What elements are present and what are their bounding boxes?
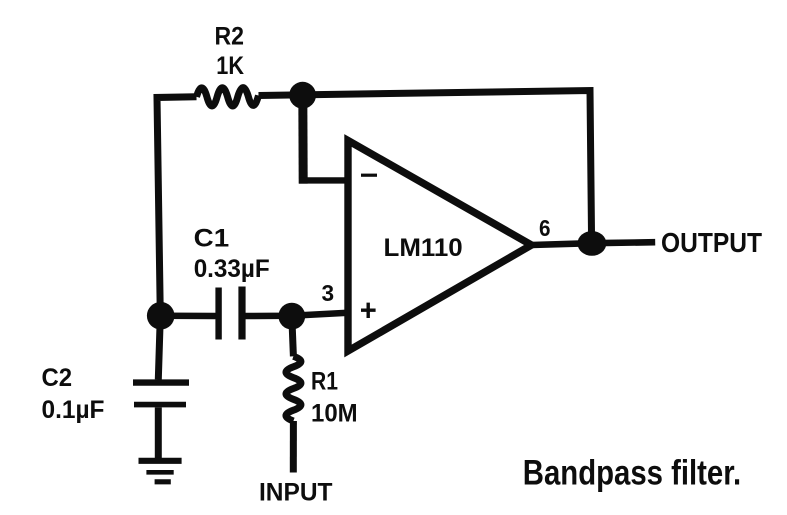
svg-text:C1: C1 <box>194 226 230 253</box>
svg-text:LM110: LM110 <box>384 235 463 262</box>
svg-text:0.33µF: 0.33µF <box>194 256 270 283</box>
svg-text:R2: R2 <box>215 24 245 51</box>
svg-text:10M: 10M <box>311 401 358 428</box>
svg-text:3: 3 <box>322 280 335 306</box>
svg-text:Bandpass filter.: Bandpass filter. <box>523 453 741 492</box>
svg-text:1K: 1K <box>216 53 244 80</box>
svg-text:OUTPUT: OUTPUT <box>661 227 762 258</box>
svg-text:C2: C2 <box>42 365 73 392</box>
svg-text:INPUT: INPUT <box>259 480 333 507</box>
svg-text:0.1µF: 0.1µF <box>42 397 105 424</box>
svg-text:6: 6 <box>539 215 551 241</box>
svg-text:R1: R1 <box>311 368 338 395</box>
